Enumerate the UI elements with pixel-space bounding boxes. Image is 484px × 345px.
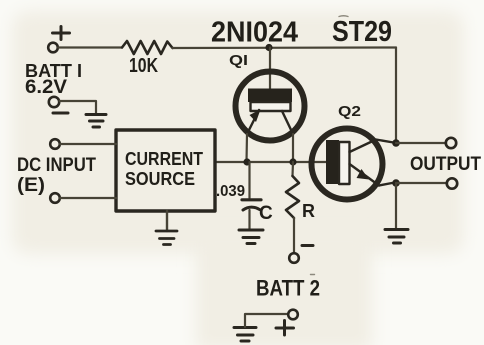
wire Q1 left leg down	[245, 134, 248, 162]
wire Q2 ground stem	[395, 183, 397, 229]
node junction R	[289, 158, 296, 165]
wire R stem top	[291, 162, 294, 176]
current source box	[116, 130, 215, 211]
svg-text:QI: QI	[229, 52, 248, 69]
svg-text:(E): (E)	[17, 175, 45, 196]
wire to output top	[396, 142, 446, 144]
wire DC input bottom	[60, 197, 116, 199]
wire Q1 top lead	[269, 48, 271, 91]
label minus R	[302, 244, 313, 247]
ground below box	[156, 231, 177, 245]
ground below C	[239, 230, 263, 244]
wire base bus	[215, 161, 327, 163]
wire DC input top	[60, 143, 116, 145]
scan speck above ST29	[339, 15, 348, 18]
wire BATT1 to ground	[60, 101, 97, 114]
terminal output top	[446, 138, 456, 148]
transistor Q1	[236, 72, 305, 141]
wire C stem top	[248, 162, 250, 198]
svg-text:C: C	[259, 203, 273, 224]
wire box ground stem	[166, 211, 168, 231]
terminal DC input top	[50, 139, 60, 149]
wire to output bottom	[396, 182, 447, 184]
svg-text:.039: .039	[216, 183, 245, 200]
ground BATT2	[234, 328, 256, 342]
Q2 emitter leg with arrow	[350, 164, 380, 186]
svg-text:6.2V: 6.2V	[25, 77, 67, 98]
terminal DC input bottom	[50, 193, 60, 203]
node junction output top	[392, 139, 400, 147]
terminal R bottom	[289, 253, 299, 263]
Q2 collector leg	[350, 140, 394, 153]
svg-text:CURRENT: CURRENT	[125, 149, 203, 169]
label plus BATT2	[276, 321, 294, 336]
Q1 emitter leg with arrow	[247, 110, 259, 134]
svg-text:BATT 2: BATT 2	[256, 276, 320, 301]
terminal output bottom	[447, 178, 457, 188]
Q1 collector leg	[282, 111, 293, 134]
svg-text:OUTPUT: OUTPUT	[410, 154, 481, 175]
svg-text:Q2: Q2	[338, 103, 361, 120]
label minus BATT1	[53, 112, 68, 115]
capacitor C	[242, 200, 261, 210]
resistor R vertical	[286, 176, 299, 218]
scan speck above BATT 2	[311, 274, 315, 276]
ground below Q2	[385, 230, 408, 244]
terminal BATT1 plus	[48, 27, 69, 53]
transistor Q2	[312, 129, 394, 200]
svg-text:SOURCE: SOURCE	[125, 169, 195, 189]
wire Q1 right leg down	[292, 134, 294, 162]
svg-text:DC INPUT: DC INPUT	[17, 155, 96, 176]
terminal BATT2 plus	[288, 310, 298, 320]
wire R stem bottom	[293, 218, 295, 253]
wire top rail right	[173, 46, 397, 49]
svg-text:2NI024: 2NI024	[211, 17, 298, 49]
ground BATT1	[86, 115, 106, 128]
wire ST29 drop	[395, 48, 397, 144]
terminal BATT1 minus	[49, 97, 59, 107]
wire BATT2	[245, 314, 288, 327]
node junction C	[243, 158, 250, 165]
node junction above Q1	[265, 44, 272, 51]
svg-text:10K: 10K	[129, 55, 158, 77]
resistor R1 10K	[122, 41, 173, 54]
wire top rail left	[58, 46, 122, 48]
wire C stem bottom	[248, 210, 250, 229]
node junction output bottom	[392, 179, 400, 187]
svg-text:ST29: ST29	[332, 16, 392, 48]
svg-text:R: R	[302, 201, 315, 221]
